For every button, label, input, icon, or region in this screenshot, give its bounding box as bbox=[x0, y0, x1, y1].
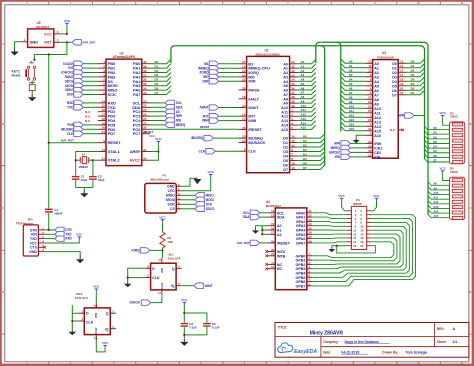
net flag TXD at U2 bbox=[83, 106, 98, 108]
wire A13 to U3 bbox=[341, 118, 365, 122]
svg-text:PA7: PA7 bbox=[133, 92, 141, 97]
wire D2 from U1 bbox=[297, 143, 324, 147]
svg-text:D6: D6 bbox=[283, 163, 288, 167]
svg-text:VCC: VCC bbox=[439, 111, 446, 115]
net flag /WR at U3 bbox=[350, 142, 364, 144]
ground at U4 A0-A2 bbox=[252, 228, 259, 234]
svg-text:19: 19 bbox=[271, 252, 275, 256]
svg-text:/WAIT: /WAIT bbox=[65, 75, 74, 79]
wire D5 from U3 bbox=[406, 82, 425, 86]
svg-text:D5: D5 bbox=[303, 157, 307, 161]
wire D4 from U3 bbox=[406, 77, 425, 81]
IC U5 DS1233-5 voltage monitor bbox=[22, 21, 60, 47]
wire U8.1 CLR to IOACK flag bbox=[151, 295, 162, 302]
svg-text:D: D bbox=[152, 267, 155, 271]
wire GPB0 bbox=[313, 242, 394, 258]
ground at JP1 bbox=[76, 256, 84, 263]
address bus top horizontal bbox=[320, 41, 424, 43]
svg-text:DS1233-5: DS1233-5 bbox=[36, 25, 49, 29]
connector JP1 FTDI Master bbox=[16, 218, 45, 256]
svg-text:C: C bbox=[2, 206, 4, 210]
svg-text:32: 32 bbox=[143, 148, 147, 152]
net flag MISO bbox=[195, 193, 205, 198]
svg-text:D0: D0 bbox=[155, 60, 159, 64]
svg-text:A: A bbox=[469, 42, 471, 46]
svg-text:20: 20 bbox=[242, 69, 246, 73]
svg-text:IOACK: IOACK bbox=[130, 301, 141, 305]
svg-text:SCK: SCK bbox=[67, 93, 74, 97]
svg-text:N.C.: N.C. bbox=[150, 134, 156, 138]
svg-text:IOACK2: IOACK2 bbox=[61, 71, 73, 75]
wire GPB2 bbox=[313, 234, 401, 264]
svg-text:A10: A10 bbox=[433, 191, 438, 195]
svg-text:16MHZ: 16MHZ bbox=[78, 165, 88, 169]
svg-text:/RFSH: /RFSH bbox=[248, 88, 259, 92]
svg-text:D0: D0 bbox=[303, 134, 307, 138]
svg-text:IORQ: IORQ bbox=[131, 249, 140, 253]
wire P1 GND to ground bbox=[182, 178, 194, 186]
svg-text:10KΩ: 10KΩ bbox=[450, 115, 458, 119]
wire D5 from U1 bbox=[297, 156, 324, 160]
svg-text:33: 33 bbox=[143, 91, 147, 95]
wire A3 to U3 bbox=[341, 73, 365, 77]
svg-text:A15: A15 bbox=[301, 126, 307, 130]
svg-text:40: 40 bbox=[143, 60, 147, 64]
svg-text:D5: D5 bbox=[155, 82, 159, 86]
net flag INT at U2 bbox=[83, 67, 98, 69]
svg-text:A7: A7 bbox=[374, 93, 379, 97]
wire A2 to U3 bbox=[341, 68, 365, 72]
svg-text:N.C.: N.C. bbox=[85, 110, 91, 114]
svg-text:A16: A16 bbox=[374, 134, 381, 138]
svg-text:19: 19 bbox=[353, 244, 357, 248]
svg-text:34: 34 bbox=[143, 87, 147, 91]
svg-text:18: 18 bbox=[271, 239, 275, 243]
wire D7 from U1 bbox=[297, 165, 324, 169]
svg-text:D2: D2 bbox=[411, 69, 415, 73]
svg-text:A5: A5 bbox=[374, 84, 379, 88]
ground at crystal bbox=[80, 190, 88, 197]
svg-text:25: 25 bbox=[368, 109, 372, 113]
wire A4 from U1 bbox=[297, 77, 315, 81]
svg-text:GPB7: GPB7 bbox=[296, 284, 306, 288]
svg-text:17: 17 bbox=[242, 117, 246, 121]
wire D7 from U3 bbox=[406, 91, 425, 95]
svg-text:VCC: VCC bbox=[338, 194, 345, 198]
svg-text:RESET: RESET bbox=[108, 140, 122, 145]
ground at caps bbox=[180, 339, 188, 346]
svg-text:SCK: SCK bbox=[108, 92, 116, 97]
svg-text:C: C bbox=[469, 206, 471, 210]
VCC at U8.2 PR bbox=[93, 285, 100, 293]
svg-text:A13: A13 bbox=[349, 118, 355, 122]
svg-text:/RESET: /RESET bbox=[248, 128, 262, 132]
svg-text:GND: GND bbox=[167, 185, 175, 189]
svg-text:D7: D7 bbox=[155, 91, 159, 95]
svg-text:27: 27 bbox=[242, 60, 246, 64]
svg-text:ATmega324/PU: ATmega324/PU bbox=[113, 55, 136, 59]
svg-text:X1: X1 bbox=[82, 153, 86, 157]
svg-text:N.C.: N.C. bbox=[85, 114, 91, 118]
title block bbox=[275, 323, 469, 358]
svg-text:14: 14 bbox=[400, 64, 404, 68]
svg-text:A10: A10 bbox=[374, 107, 381, 111]
svg-text:19: 19 bbox=[400, 82, 404, 86]
svg-text:CE2: CE2 bbox=[374, 151, 381, 155]
svg-text:15: 15 bbox=[400, 69, 404, 73]
svg-text:SCL: SCL bbox=[176, 101, 182, 105]
wire D3 from U3 bbox=[406, 73, 425, 77]
net flag /NMI at U1 bbox=[219, 120, 239, 122]
svg-text:/WAIT: /WAIT bbox=[200, 106, 209, 110]
wire A10 to U3 bbox=[341, 104, 365, 108]
svg-text:D5: D5 bbox=[411, 82, 415, 86]
svg-text:28: 28 bbox=[368, 118, 372, 122]
svg-text:VCC: VCC bbox=[208, 170, 215, 174]
wire A14 pull-up to R2 bbox=[428, 210, 450, 213]
svg-text:MOSI: MOSI bbox=[166, 198, 175, 202]
svg-text:WAIT: WAIT bbox=[205, 284, 213, 288]
svg-text:RXD: RXD bbox=[65, 237, 72, 241]
svg-text:A10: A10 bbox=[349, 105, 355, 109]
svg-text:MISO: MISO bbox=[166, 194, 175, 198]
wire GPA6 bbox=[313, 237, 347, 240]
svg-text:28: 28 bbox=[143, 126, 147, 130]
wire D4 from PA4 bbox=[150, 77, 171, 81]
VCC symbol at P1 bbox=[208, 170, 215, 178]
svg-text:22pF: 22pF bbox=[81, 178, 88, 182]
net flag /RD at U2 right bbox=[150, 120, 165, 122]
svg-text:O0: O0 bbox=[392, 62, 397, 66]
wire A9 from U1 bbox=[297, 99, 315, 103]
svg-text:O3: O3 bbox=[392, 75, 397, 79]
data bus branch down to U1 bbox=[320, 46, 324, 166]
VCC at P4 pin1 bbox=[338, 194, 345, 202]
svg-text:18: 18 bbox=[102, 117, 106, 121]
wire AVR_RST to U2 RESET bbox=[49, 142, 98, 144]
wire A8 from U1 bbox=[297, 94, 315, 98]
svg-text:/WR: /WR bbox=[202, 79, 209, 83]
svg-text:D6: D6 bbox=[155, 86, 159, 90]
svg-text:INTB: INTB bbox=[277, 254, 286, 258]
svg-text:A13: A13 bbox=[374, 120, 381, 124]
svg-text:D4: D4 bbox=[411, 78, 415, 82]
data bus right corner down to R1 bbox=[420, 46, 424, 159]
svg-text:/CE1: /CE1 bbox=[374, 146, 382, 150]
svg-text:12: 12 bbox=[368, 60, 372, 64]
svg-text:CLK: CLK bbox=[152, 276, 160, 280]
svg-text:D1: D1 bbox=[155, 64, 159, 68]
wire A12 to U3 bbox=[341, 113, 365, 117]
svg-text:SDA: SDA bbox=[243, 215, 250, 219]
svg-text:13: 13 bbox=[400, 60, 404, 64]
wire D3 from PA3 bbox=[150, 73, 171, 77]
svg-text:A15: A15 bbox=[349, 127, 355, 131]
svg-text:MOSI: MOSI bbox=[206, 198, 214, 202]
svg-text:RXD: RXD bbox=[67, 101, 74, 105]
svg-text:A0: A0 bbox=[176, 110, 180, 114]
wire D6 from U1 bbox=[297, 161, 324, 165]
net flag RXD bbox=[55, 236, 65, 241]
svg-text:AVR_RST: AVR_RST bbox=[82, 40, 95, 44]
wire U8.2 D,CLK to ground bbox=[72, 313, 78, 329]
svg-text:19: 19 bbox=[102, 121, 106, 125]
connector P4 IDEXP bbox=[346, 198, 371, 249]
wire A7 from U1 bbox=[297, 90, 315, 94]
wire KEY1 to ground bbox=[31, 80, 33, 84]
wire long reset/DTR vertical bbox=[48, 55, 50, 230]
wire GPB4 bbox=[313, 226, 407, 273]
svg-text:/BUSRQ: /BUSRQ bbox=[248, 137, 263, 141]
wire A12 pull-up to R2 bbox=[428, 201, 450, 204]
wire A7 to U3 bbox=[341, 91, 365, 95]
wire D4 pull-up to R1 bbox=[425, 145, 450, 148]
net flag MREQ at U2 right bbox=[150, 124, 165, 126]
svg-text:CLK: CLK bbox=[248, 150, 256, 154]
svg-text:39: 39 bbox=[143, 65, 147, 69]
svg-text:27: 27 bbox=[143, 121, 147, 125]
no-connect at JP1 CTS bbox=[43, 246, 46, 249]
svg-text:D: D bbox=[2, 290, 4, 294]
svg-text:/RD: /RD bbox=[335, 155, 341, 159]
svg-text:A: A bbox=[453, 327, 456, 331]
net flag /BUSRQ at U1 bbox=[214, 137, 239, 139]
wire A14 to U3 bbox=[341, 122, 365, 126]
svg-text:D2: D2 bbox=[433, 135, 437, 139]
wire P1 VCC to VCC bbox=[182, 178, 211, 191]
svg-text:AVCC: AVCC bbox=[130, 158, 141, 163]
svg-text:INT: INT bbox=[68, 66, 73, 70]
wire P4 pin19 to ground bbox=[332, 245, 347, 248]
svg-text:Sheet:: Sheet: bbox=[437, 340, 447, 344]
svg-text:MCP23017: MCP23017 bbox=[266, 204, 281, 208]
net flag MISO at U2 bbox=[83, 89, 98, 91]
svg-text:10KΩ: 10KΩ bbox=[450, 170, 458, 174]
IC U8.2 74ALS74 flip-flop bbox=[75, 292, 116, 339]
wire U8.1 D,CLK to ground bbox=[128, 268, 145, 281]
svg-text:1/1: 1/1 bbox=[453, 340, 458, 344]
wire D0 from U3 bbox=[406, 59, 425, 63]
wire GPA4 bbox=[313, 229, 347, 231]
svg-text:D3: D3 bbox=[155, 73, 159, 77]
svg-text:NMI: NMI bbox=[398, 114, 404, 118]
svg-text:O2: O2 bbox=[392, 71, 397, 75]
wire GPB1 bbox=[313, 238, 397, 261]
net flag SDCS bbox=[195, 206, 205, 211]
svg-text:17: 17 bbox=[102, 113, 106, 117]
capacitor C2 22pF bbox=[89, 175, 105, 182]
svg-text:A5: A5 bbox=[349, 82, 353, 86]
svg-text:A6: A6 bbox=[349, 87, 353, 91]
svg-text:74ALS74: 74ALS74 bbox=[75, 296, 88, 300]
svg-text:/INT: /INT bbox=[203, 114, 209, 118]
wire RXI to flag bbox=[45, 233, 55, 235]
svg-text:26: 26 bbox=[143, 117, 147, 121]
svg-text:0.1uF: 0.1uF bbox=[189, 326, 197, 330]
wire U5 RST to AVR_RST flag and reset net bbox=[60, 41, 72, 43]
wire DTR to flag bbox=[45, 229, 55, 231]
net flag MREQ at U3 bbox=[350, 147, 364, 149]
svg-text:MOSI: MOSI bbox=[65, 84, 73, 88]
svg-text:A6: A6 bbox=[374, 89, 379, 93]
wire AREF/AVCC to VCC bbox=[150, 145, 158, 152]
svg-text:D3: D3 bbox=[303, 148, 307, 152]
net flag AVR_RST at U4 bbox=[250, 240, 260, 245]
svg-text:A11: A11 bbox=[374, 111, 381, 115]
wire D6 from PA6 bbox=[150, 86, 171, 90]
svg-text:NC: NC bbox=[277, 267, 283, 271]
wire A13 pull-up to R2 bbox=[428, 205, 450, 208]
svg-text:A1: A1 bbox=[349, 64, 353, 68]
svg-text:D6: D6 bbox=[411, 87, 415, 91]
wire U5 GND to ground bbox=[15, 42, 22, 49]
svg-text:D6: D6 bbox=[433, 154, 437, 158]
net flag /RD at U3 bbox=[350, 156, 364, 158]
svg-text:A12: A12 bbox=[349, 114, 355, 118]
svg-text:D7: D7 bbox=[411, 91, 415, 95]
svg-text:D7: D7 bbox=[303, 166, 307, 170]
svg-text:10: 10 bbox=[368, 69, 372, 73]
svg-text:AVR_RST: AVR_RST bbox=[237, 241, 250, 245]
svg-text:D2: D2 bbox=[303, 143, 307, 147]
svg-text:24: 24 bbox=[143, 108, 147, 112]
net flag /BUSRQ at U2 bbox=[83, 128, 98, 130]
IC U2 ATmega324/PU bbox=[98, 51, 150, 165]
svg-text:12: 12 bbox=[102, 157, 106, 161]
wire D7 pull-up to R1 bbox=[425, 159, 450, 162]
net flag SDA at U2 right bbox=[150, 106, 165, 108]
net flag AVR_RST at U5 bbox=[72, 40, 82, 45]
capacitor C1 22pF bbox=[72, 175, 88, 182]
ground at P4 bbox=[328, 247, 335, 253]
wire A15 from U1 bbox=[297, 125, 315, 129]
svg-text:74ALS74: 74ALS74 bbox=[168, 256, 181, 260]
net flag RXD at U2 bbox=[83, 102, 98, 104]
resistor network R2 10K bbox=[450, 167, 465, 220]
net flag SCK bbox=[195, 202, 205, 207]
svg-text:D1: D1 bbox=[411, 64, 415, 68]
wire A6 to U3 bbox=[341, 86, 365, 90]
net flag SCK at U2 bbox=[83, 94, 98, 96]
svg-text:PD5: PD5 bbox=[67, 123, 73, 127]
svg-text:MREQ: MREQ bbox=[331, 146, 341, 150]
capacitor C5 0.1uF bbox=[203, 322, 220, 330]
wire D1 from U1 bbox=[297, 138, 324, 142]
svg-text:A3: A3 bbox=[374, 75, 379, 79]
svg-text:A11: A11 bbox=[433, 196, 438, 200]
wire U8.2 CLR to VCC bbox=[96, 339, 105, 352]
svg-text:A0: A0 bbox=[349, 60, 353, 64]
svg-text:27: 27 bbox=[368, 96, 372, 100]
wire GPB7 bbox=[313, 215, 416, 286]
wire A14 from U1 bbox=[297, 121, 315, 125]
svg-text:TC551001CP: TC551001CP bbox=[377, 55, 394, 59]
svg-text:D3: D3 bbox=[411, 73, 415, 77]
svg-text:30: 30 bbox=[368, 149, 372, 153]
svg-text:Z84C0010 (CMOS): Z84C0010 (CMOS) bbox=[255, 52, 279, 56]
svg-text:17: 17 bbox=[400, 73, 404, 77]
svg-text:O5: O5 bbox=[392, 84, 397, 88]
wire D2 from PA2 bbox=[150, 68, 171, 72]
ground at U3 A16 bbox=[353, 137, 360, 143]
svg-text:Minty Z80AVR: Minty Z80AVR bbox=[310, 330, 344, 336]
svg-text:RST: RST bbox=[44, 41, 52, 45]
svg-text:/WR: /WR bbox=[334, 142, 341, 146]
wire A3 from U1 bbox=[297, 73, 315, 77]
wire GPA1 bbox=[313, 217, 347, 218]
svg-text:/CLR: /CLR bbox=[160, 282, 164, 290]
ground at P1 bbox=[193, 178, 201, 184]
svg-text:GND: GND bbox=[30, 40, 39, 44]
svg-text:/BUSRQ: /BUSRQ bbox=[61, 127, 74, 131]
svg-text:Date:: Date: bbox=[323, 350, 331, 354]
svg-text:VCC: VCC bbox=[155, 137, 162, 141]
svg-text:04-22-2019: 04-22-2019 bbox=[341, 350, 359, 354]
svg-text:SDCS: SDCS bbox=[206, 207, 215, 211]
EasyEDA logo bbox=[278, 343, 318, 355]
VCC at P4 pin2 bbox=[373, 194, 380, 202]
wire cap loop bbox=[184, 313, 207, 339]
net flag /WR at U2 right bbox=[150, 115, 165, 117]
wire U8.1 /Q to WAIT flag bbox=[182, 285, 194, 287]
svg-text:D5: D5 bbox=[433, 149, 437, 153]
pushbutton KEY1 Reset bbox=[12, 61, 36, 91]
svg-text:GND: GND bbox=[29, 250, 37, 254]
net flag CLK at U1 bbox=[215, 150, 238, 152]
svg-text:13: 13 bbox=[102, 148, 106, 152]
svg-text:D0: D0 bbox=[411, 60, 415, 64]
svg-text:O6: O6 bbox=[392, 89, 397, 93]
VCC symbol above U5 bbox=[64, 19, 71, 27]
svg-text:/RESET: /RESET bbox=[277, 241, 291, 245]
svg-text:B: B bbox=[469, 122, 471, 126]
svg-text:A9: A9 bbox=[374, 102, 379, 106]
svg-text:RESET: RESET bbox=[200, 125, 210, 129]
svg-text:SDA: SDA bbox=[277, 216, 285, 220]
wire A0 to U3 bbox=[341, 59, 365, 63]
svg-text:GPA7: GPA7 bbox=[296, 241, 306, 245]
svg-text:A1: A1 bbox=[374, 66, 379, 70]
svg-text:/NMI: /NMI bbox=[248, 119, 256, 123]
svg-text:IOACK: IOACK bbox=[63, 62, 74, 66]
net flag IOACK bbox=[141, 300, 151, 305]
svg-text:15: 15 bbox=[291, 139, 295, 143]
svg-text:14: 14 bbox=[291, 135, 295, 139]
net flag PD5 at U2 bbox=[83, 124, 98, 126]
net flag EMCE2 at U3 bbox=[350, 151, 364, 153]
svg-text:21: 21 bbox=[102, 130, 106, 134]
svg-text:16: 16 bbox=[242, 113, 246, 117]
wire A11 to U3 bbox=[341, 109, 365, 113]
wire GPB3 bbox=[313, 230, 404, 269]
svg-text:SDCS: SDCS bbox=[65, 79, 75, 83]
svg-text:A15: A15 bbox=[281, 128, 288, 132]
svg-text:D0: D0 bbox=[433, 126, 437, 130]
svg-text:/IORQ: /IORQ bbox=[248, 71, 259, 75]
svg-text:24: 24 bbox=[368, 144, 372, 148]
svg-text:D7: D7 bbox=[283, 168, 288, 172]
svg-text:O1: O1 bbox=[392, 66, 397, 70]
svg-text:SCK: SCK bbox=[206, 202, 213, 206]
wire D6 pull-up to R1 bbox=[425, 154, 450, 157]
net flag TXD bbox=[55, 232, 65, 237]
wire D6 from U3 bbox=[406, 86, 425, 90]
wire D3 pull-up to R1 bbox=[425, 140, 450, 143]
wire JP1 VCC bbox=[45, 240, 80, 243]
svg-text:A9: A9 bbox=[433, 186, 437, 190]
wire P1 MOSI to flag bbox=[182, 199, 195, 201]
svg-text:23: 23 bbox=[242, 139, 246, 143]
